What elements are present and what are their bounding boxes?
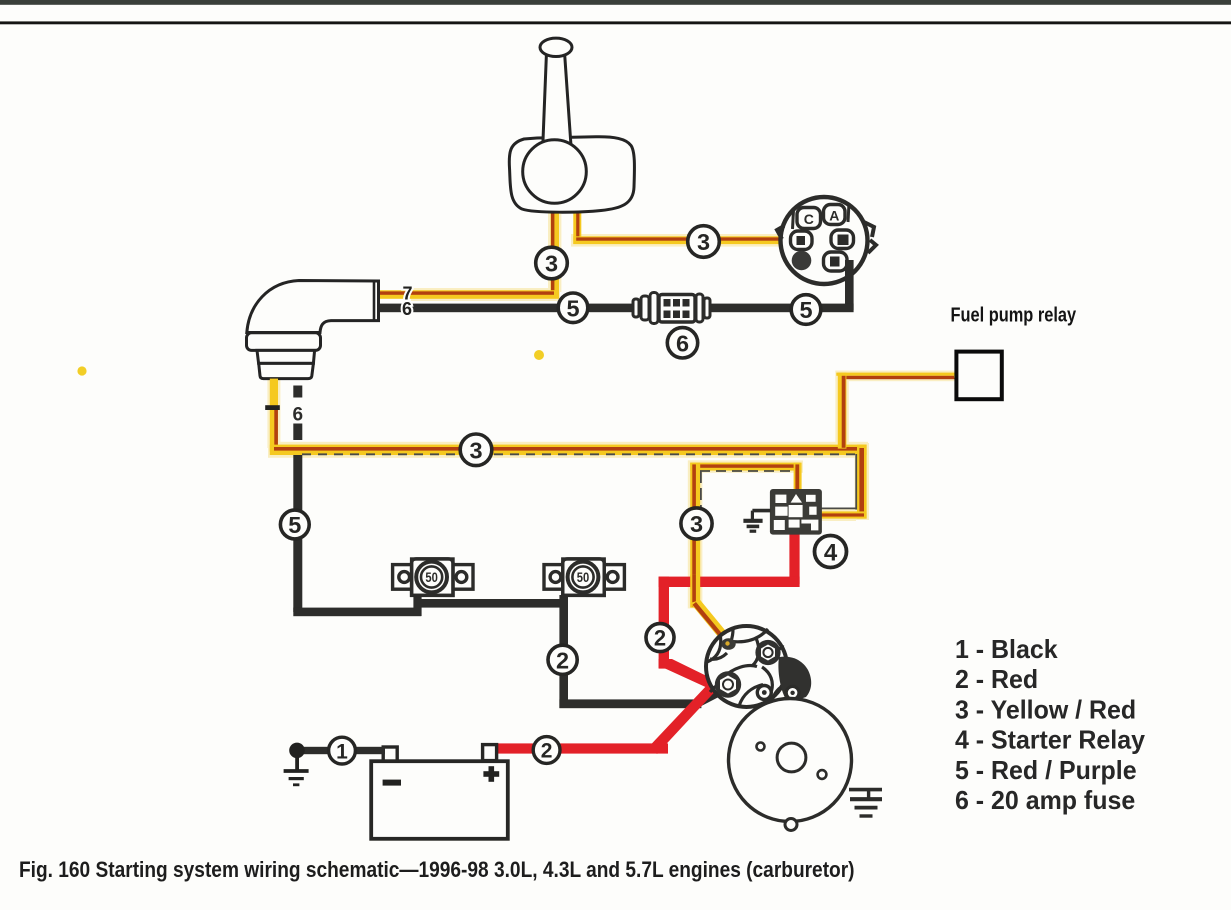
wire 5 black: lower horizontal to breaker junction (293, 595, 725, 708)
wire 3 yellow/red: branch from starter relay top to solenoid (690, 463, 801, 645)
ground at battery (284, 743, 309, 785)
tick mark on elbow lead (265, 405, 280, 410)
control handle (throttle/shift lever) (509, 38, 634, 212)
svg-text:6: 6 (402, 299, 412, 319)
svg-text:A: A (829, 208, 839, 224)
wire 5 black: vertical run to 50A breakers (293, 455, 302, 612)
node label 1 (battery negative wire) (329, 737, 356, 764)
svg-text:3: 3 (697, 229, 710, 255)
wire 1 black: battery negative to ground (297, 747, 385, 754)
wire 7 yellow/red: control handle left lead down and left to elbow (377, 206, 559, 299)
svg-text:2: 2 (654, 626, 666, 651)
elbow connector (shift cable bellows) (247, 281, 379, 379)
wire 3 yellow/red crossing over red relay wire (690, 575, 700, 589)
fuel pump relay box (956, 352, 1001, 400)
svg-text:5: 5 (566, 295, 579, 321)
ignition switch (777, 197, 876, 284)
scan speck yellow left (77, 366, 86, 375)
svg-text:3 - Yellow / Red: 3 - Yellow / Red (955, 696, 1136, 725)
legend (955, 636, 1146, 816)
svg-text:2 - Red: 2 - Red (955, 666, 1038, 695)
wire 3 yellow/red: elbow down lead (270, 379, 278, 452)
scan speck yellow center (534, 350, 544, 360)
svg-text:6: 6 (293, 405, 304, 426)
svg-text:3: 3 (469, 437, 482, 463)
node label 5 (right on feed wire) (791, 295, 821, 325)
wire yellow/red: fuel pump relay feed (836, 373, 962, 449)
wire glow halos (267, 204, 957, 608)
node label 2 (battery positive wire) (533, 737, 560, 764)
svg-text:1: 1 (336, 740, 348, 763)
svg-text:6 - 20 amp fuse: 6 - 20 amp fuse (955, 787, 1135, 816)
node label 5 (left on feed wire) (558, 293, 588, 323)
ground at starter motor (849, 790, 882, 816)
wire 6 black: horizontal red/purple feed wire with inline fuse (379, 304, 854, 313)
node label 2 (red relay wire) (646, 624, 674, 652)
svg-text:5 - Red / Purple: 5 - Red / Purple (955, 756, 1137, 785)
pencil underlines on highlighted wires (302, 454, 857, 518)
20 amp fuse (inline) (633, 293, 710, 324)
node label 5 (vertical black wire) (280, 510, 309, 539)
node label 4 (starter relay) (815, 536, 847, 568)
svg-text:1 - Black: 1 - Black (955, 636, 1058, 665)
svg-text:6: 6 (676, 330, 689, 356)
node label 3 (long horizontal wire) (460, 434, 492, 466)
wire black dashed: elbow second lead (293, 386, 302, 441)
starter solenoid (706, 626, 811, 707)
node label 3 (control right lead) (688, 226, 720, 258)
wire 2 red: starter relay to solenoid (659, 524, 800, 692)
battery (371, 745, 508, 839)
wire 3 yellow/red: control handle right lead to ignition switch (573, 206, 790, 244)
svg-text:50: 50 (425, 570, 437, 585)
wire 3 yellow/red: long horizontal run (270, 445, 867, 455)
wire black: ignition switch down lead (845, 260, 854, 310)
wire 2 red: battery positive to solenoid (488, 684, 717, 755)
top border line (0, 21, 1231, 24)
node label 2 (black breaker wire) (548, 645, 577, 674)
svg-text:50: 50 (577, 570, 589, 585)
svg-text:3: 3 (545, 251, 558, 277)
starter motor (729, 699, 852, 831)
top scan bar (0, 0, 1231, 5)
starter relay (770, 489, 822, 535)
circuit breaker 50A (left) (393, 559, 473, 596)
ground at starter relay (743, 511, 770, 532)
svg-text:4 - Starter Relay: 4 - Starter Relay (955, 726, 1146, 755)
svg-text:2: 2 (541, 740, 553, 763)
node label 3 (solenoid branch) (681, 508, 712, 539)
svg-text:5: 5 (799, 297, 812, 323)
node label 3 (control left lead) (536, 247, 568, 279)
circuit breaker 50A (right) (544, 559, 624, 596)
svg-text:5: 5 (288, 512, 301, 538)
svg-text:Fig. 160 Starting system wiri: Fig. 160 Starting system wiring schemati… (19, 858, 855, 883)
svg-text:Fuel pump relay: Fuel pump relay (951, 303, 1077, 326)
node label 6 (fuse) (667, 328, 697, 358)
svg-text:C: C (804, 211, 814, 227)
svg-text:4: 4 (824, 539, 838, 566)
svg-text:3: 3 (690, 511, 703, 537)
wire 3 yellow/red: right vertical down to starter relay (820, 445, 867, 519)
svg-text:2: 2 (556, 647, 569, 673)
